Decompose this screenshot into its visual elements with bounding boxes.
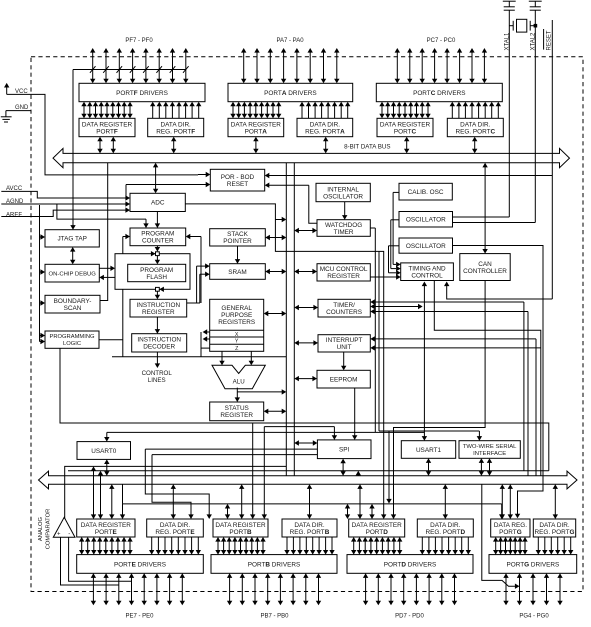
wire stack pointer to SRAM [235,246,240,264]
svg-text:REGISTER: REGISTER [220,412,253,419]
svg-text:AREF: AREF [6,212,22,218]
svg-text:REG. PORTA: REG. PORTA [305,128,345,135]
block DATA REGISTER PORTF [79,118,135,136]
block DATA DIR. REG. PORTE [147,519,204,537]
block PORTA DRIVERS [228,83,353,101]
wire vertical data bus (left rail) [285,163,287,476]
wires: lower bus to PORTG registers [500,484,558,519]
wire rail to two-wire interface [378,251,380,431]
svg-text:GND: GND [15,105,29,111]
wire instruction decoder to control lines [155,352,160,368]
wire POR-BOD to RESET line [265,173,553,178]
wires USART0/SPI pin routing [145,446,322,519]
svg-text:PORTB: PORTB [229,529,252,536]
wires to port B register [225,504,230,519]
wires: lower bus to PORTD registers [357,484,448,519]
wire RESET to timing and control [444,282,552,300]
wire timing control to USART0 clock [104,432,424,441]
wires: PORTD direction register to driver [420,537,471,555]
svg-text:OSCILLATOR: OSCILLATOR [406,243,446,250]
wires: PORTA driver to data direction register [299,102,350,119]
op-amp style ALU [212,365,265,388]
wire to port D register [345,431,392,519]
wires: PORTE register to driver [79,537,133,555]
wires: lower bus to PORTE registers [171,484,176,519]
svg-text:PORTA DRIVERS: PORTA DRIVERS [264,90,316,97]
pins PB7 - PB0 [227,573,321,619]
wire programming logic stub [99,339,123,341]
svg-text:COMPARATOR: COMPARATOR [46,509,52,550]
svg-text:INSTRUCTION: INSTRUCTION [137,337,181,344]
wires: PORTG direction register to driver [536,537,574,555]
block DATA DIR. REG. PORTG [533,519,575,537]
label ANALOG COMPARATOR [38,509,52,550]
svg-text:INSTRUCTION: INSTRUCTION [136,302,180,309]
wires: lower bus to PORTB registers [239,484,312,519]
wire TWI to port G clock out [482,484,520,589]
svg-text:PROGRAM: PROGRAM [141,231,174,238]
block DATA DIR. REG. PORTD [417,519,473,537]
svg-text:PORTC: PORTC [394,128,417,135]
wire program counter right rail [186,234,201,303]
block BOUNDARY-SCAN [45,295,100,313]
block DATA REGISTER PORTB [213,519,268,537]
svg-text:DATA REG.: DATA REG. [494,522,527,529]
block PORTG DRIVERS [489,555,577,574]
wire interrupt lines to right rail [370,336,541,476]
wires: PORTG register to driver [493,537,528,555]
svg-text:STATUS: STATUS [225,405,249,412]
wire oscillator output right rail [453,246,544,519]
wire AVCC branch to POR-BOD reset [126,182,210,198]
svg-text:PG4 - PG0: PG4 - PG0 [519,614,549,620]
pin AVCC [1,186,130,201]
8-bit data bus (lower) [39,471,578,489]
svg-text:USART1: USART1 [416,447,442,454]
svg-text:DATA DIR.: DATA DIR. [430,522,461,529]
block USART0 [77,442,131,460]
wire timing control down rail [434,281,541,476]
wire control bus horizontal [112,356,286,358]
svg-text:SPI: SPI [339,447,350,454]
svg-text:ADC: ADC [151,200,165,207]
svg-text:ANALOG: ANALOG [38,516,44,541]
block WATCHDOG TIMER [317,220,370,237]
wire debug rail with taps [40,205,46,344]
svg-text:CONTROL: CONTROL [142,370,173,377]
wire XTAL1 to oscillator [453,216,510,218]
wires SPI to port B [250,423,267,519]
wire POR-BOD to watchdog [265,183,317,224]
wires: PORTF driver to data direction register [150,102,201,119]
svg-text:CONTROLLER: CONTROLLER [463,268,507,275]
pins PG4 - PG0 [503,573,562,619]
wire X/Y register address out [201,329,210,357]
svg-text:PA7 - PA0: PA7 - PA0 [276,38,304,44]
wire ADC output rail [185,204,383,504]
wire timer clock rail [370,299,528,475]
block TIMER/COUNTERS [318,299,370,317]
wires analog comparator inputs [61,537,132,585]
block PROGRAM COUNTER [130,228,186,246]
block SPI [317,440,371,459]
svg-text:REGISTER: REGISTER [142,309,175,316]
wire lower distribution horizontal [123,484,505,519]
svg-text:PORTG: PORTG [499,529,522,536]
block INTERNAL OSCILLATOR [316,183,370,201]
pin AREF [1,207,130,218]
8-bit data bus (upper) [53,148,570,167]
svg-text:LINES: LINES [148,377,166,384]
wire interrupt unit to bus [294,340,318,345]
wires: PORTB register to driver [215,537,265,555]
wires: PORTF registers to data bus [97,137,176,154]
block STACK POINTER [210,229,266,246]
wires: PORTA driver to data register [230,102,281,119]
pins PD7 - PD0 [363,573,457,619]
svg-text:PORTG DRIVERS: PORTG DRIVERS [506,561,559,568]
wires: PORTF driver to data register [81,102,132,119]
svg-text:CALIB. OSC: CALIB. OSC [408,189,444,196]
block DATA DIR. REG. PORTC [447,118,503,136]
wire indirect addressing SRAM to registers [197,263,210,303]
svg-text:REG. PORTE: REG. PORTE [155,529,195,536]
block DATA REGISTER PORTA [228,118,284,136]
svg-text:DATA REGISTER: DATA REGISTER [81,522,132,529]
wire timer/counters to timing control [370,304,422,309]
svg-text:ALU: ALU [233,378,245,385]
block DATA REGISTER PORTC [377,118,433,136]
svg-text:INTERFACE: INTERFACE [473,451,506,457]
wire general purpose registers to bus [264,311,287,316]
svg-text:PORTE: PORTE [95,529,118,536]
wire instruction register to instruction decoder [155,317,160,334]
wire VCC rail to POR-BOD reset [7,94,211,177]
svg-text:DATA REGISTER: DATA REGISTER [215,522,266,529]
wire to two-wire serial interface [379,431,482,441]
svg-text:TWO-WIRE SERIAL: TWO-WIRE SERIAL [463,444,517,450]
svg-text:LOGIC: LOGIC [63,341,81,347]
op-amp analog comparator [53,517,75,537]
block PROGRAMMING LOGIC [45,331,99,348]
svg-text:DATA REGISTER: DATA REGISTER [82,121,133,128]
svg-text:ON-CHIP DEBUG: ON-CHIP DEBUG [49,271,97,277]
wire status register to bus [264,409,287,414]
svg-text:COUNTERS: COUNTERS [326,309,362,316]
svg-text:PF7 - PF0: PF7 - PF0 [125,38,153,44]
svg-text:PB7 - PB0: PB7 - PB0 [260,614,289,620]
svg-text:INTERNAL: INTERNAL [327,186,359,193]
svg-text:PORTC DRIVERS: PORTC DRIVERS [413,90,465,97]
svg-text:DATA REGISTER: DATA REGISTER [231,121,282,128]
wire instruction register to GPR [187,302,200,304]
svg-text:UNIT: UNIT [337,344,352,351]
wire ALU to status register [235,388,240,402]
wire registers to ALU (right) [249,351,254,365]
svg-text:PURPOSE: PURPOSE [221,312,252,319]
pin XTAL1 [504,10,510,217]
svg-text:REGISTERS: REGISTERS [218,319,255,326]
svg-text:POR - BOD: POR - BOD [221,174,255,181]
wire SPI to bus rail [294,440,317,445]
svg-text:EEPROM: EEPROM [330,377,358,384]
svg-text:GENERAL: GENERAL [221,305,252,312]
wire clock distribution horizontal [68,471,549,476]
svg-text:DATA DIR.: DATA DIR. [310,121,341,128]
wire AGND branch to program counter [57,204,149,228]
block EEPROM [317,370,370,388]
pin RESET (active low) [544,20,553,299]
block INSTRUCTION DECODER [132,334,187,352]
svg-text:DATA DIR.: DATA DIR. [160,522,191,529]
wire vertical data bus (right rail) [293,163,295,476]
wire program counter left rail [123,234,130,357]
block DATA DIR. REG. PORTB [282,519,337,537]
wire USART1 to lower bus [426,458,431,475]
block MCU CONTROL REGISTER [317,264,370,281]
block USART1 [401,441,455,459]
wires: PORTD register to driver [351,537,402,555]
capacitor at XTAL2 [529,1,542,10]
pins PF7 - PF0 [90,38,189,83]
wires on-chip debug to program flash [99,266,115,281]
wire internal oscillator to watchdog timer [342,202,347,220]
svg-text:USART0: USART0 [91,448,117,455]
wires to port E register [91,466,125,519]
wire registers to ALU (left) [219,351,224,365]
svg-text:PORTF: PORTF [96,128,118,135]
wire oscillator 2 to timing control [389,246,401,276]
svg-text:CAN: CAN [478,261,492,268]
block PORTF DRIVERS [79,83,205,101]
svg-text:PORTE DRIVERS: PORTE DRIVERS [114,561,166,568]
svg-text:MCU CONTROL: MCU CONTROL [320,266,368,273]
wire TWI to lower bus [479,458,493,475]
block INTERRUPT UNIT [318,335,370,352]
svg-text:CONTROL: CONTROL [411,273,443,280]
block DATA DIR. REG. PORTF [148,118,204,136]
wire program flash to instruction register [155,291,160,299]
wire ADC to bus [153,163,158,194]
junction flash output [156,287,164,292]
wire ALU to bus [237,389,286,394]
svg-text:DATA REGISTER: DATA REGISTER [380,121,431,128]
svg-text:PORTA: PORTA [245,128,268,135]
capacitor at XTAL1 [503,1,516,10]
block TIMING AND CONTROL [401,263,454,281]
wire timing control to USART1 clock [422,282,427,441]
svg-text:TIMING AND: TIMING AND [408,266,446,273]
wire JTAG pin tap along PORTF pins [70,66,188,230]
block ADC [130,193,185,211]
svg-text:REG. PORTC: REG. PORTC [455,128,495,135]
net label 8-BIT DATA BUS [344,144,390,151]
junction program counter to flash [151,246,160,265]
svg-text:REG. PORTB: REG. PORTB [290,529,330,536]
wire programming logic to serial programming [60,348,549,471]
wire MCU control register to bus [294,269,317,274]
pin VCC [4,83,28,95]
wire timer/counters to bus [294,305,318,310]
svg-text:REG. PORTD: REG. PORTD [425,529,465,536]
wire ADC to program counter [155,212,160,229]
wire JTAG to on-chip debug [70,247,75,264]
block POR - BOD RESET [210,169,264,191]
pins PA7 - PA0 [241,38,340,83]
wire EEPROM to bus [294,376,317,381]
wire watchdog rail down [370,228,375,432]
svg-text:PROGRAM: PROGRAM [140,267,173,274]
block OSCILLATOR U-OSC1 [399,212,453,228]
svg-text:PE7 - PE0: PE7 - PE0 [125,614,154,620]
svg-text:COUNTER: COUNTER [142,238,174,245]
wire CAN controller to port D [391,281,485,520]
block PORTC DRIVERS [376,83,502,101]
wire interrupt unit to EEPROM [341,352,346,370]
svg-text:PORTF DRIVERS: PORTF DRIVERS [116,90,168,97]
svg-text:REG. PORTG: REG. PORTG [534,529,574,536]
wire USART0 to bus [104,459,109,475]
wires: PORTC driver to data direction register [450,102,501,119]
net label CONTROL LINES [142,370,173,384]
block DATA DIR. REG. PORTA [297,118,353,136]
svg-text:PORTD DRIVERS: PORTD DRIVERS [384,561,436,568]
svg-text:STACK: STACK [227,231,249,238]
svg-text:PROGRAMMING: PROGRAMMING [49,334,95,340]
svg-text:TIMER/: TIMER/ [333,302,355,309]
block PORTE DRIVERS [77,555,204,574]
block OSCILLATOR U-OSC2 [399,238,453,253]
svg-text:DECODER: DECODER [143,344,175,351]
svg-text:BOUNDARY-: BOUNDARY- [54,298,92,305]
svg-text:RESET: RESET [227,181,248,188]
wire oscillator 1 to timing control [391,220,401,271]
wire SPI to lower bus [340,459,345,476]
block ON-CHIP DEBUG [45,264,99,282]
block GENERAL PURPOSE REGISTERS [210,299,264,352]
pins PE7 - PE0 [91,573,185,619]
crystal Y1 [509,19,537,32]
wire MCU control to timing and control [370,274,400,279]
svg-text:REGISTER: REGISTER [327,273,360,280]
svg-text:WATCHDOG: WATCHDOG [325,222,362,229]
svg-text:PORTD: PORTD [366,529,389,536]
svg-text:SRAM: SRAM [228,269,246,276]
block TWO-WIRE SERIAL INTERFACE [459,441,520,459]
svg-text:DATA REGISTER: DATA REGISTER [352,522,403,529]
block DATA REGISTER PORTD [349,519,405,537]
pins PC7 - PC0 [395,38,488,83]
pin AGND [1,199,130,207]
block SRAM [210,264,266,280]
block JTAG TAP [45,230,99,247]
svg-text:SCAN: SCAN [64,305,82,312]
wires: PORTC registers to data bus [404,137,477,154]
chip boundary (dashed) [31,57,583,592]
wire SRAM to bus [265,269,286,274]
svg-text:X: X [235,332,239,338]
wire boundary-scan to port pins [100,163,108,301]
block CAN CONTROLLER [460,254,510,281]
svg-text:POINTER: POINTER [223,238,252,245]
svg-text:Y: Y [235,339,239,345]
wire XTAL2 to oscillator [453,222,536,224]
svg-text:DATA DIR.: DATA DIR. [539,522,570,529]
block PORTB DRIVERS [211,555,337,574]
svg-text:JTAG TAP: JTAG TAP [57,236,86,243]
block INSTRUCTION REGISTER [130,299,187,317]
wires from bus to SPI [264,388,357,440]
svg-text:INTERRUPT: INTERRUPT [326,337,363,344]
pin GND [1,105,31,122]
svg-text:PC7 - PC0: PC7 - PC0 [427,38,456,44]
block PORTD DRIVERS [347,555,473,574]
wire CAN controller to bus [482,163,487,254]
wires: PORTC driver to data register [379,102,430,119]
svg-text:OSCILLATOR: OSCILLATOR [323,193,363,200]
block program flash outer [115,254,190,290]
svg-text:DATA DIR.: DATA DIR. [460,121,491,128]
block DATA REGISTER PORTE [77,519,135,537]
wire analog comparator output [65,466,287,518]
block STATUS REGISTER [210,402,264,421]
svg-text:PORTB DRIVERS: PORTB DRIVERS [248,561,300,568]
wires: PORTB direction register to driver [284,537,334,555]
svg-text:FLASH: FLASH [146,274,167,281]
svg-text:TIMER: TIMER [334,229,354,236]
wires: PORTE direction register to driver [149,537,201,555]
svg-text:DATA DIR.: DATA DIR. [161,121,192,128]
svg-text:DATA DIR.: DATA DIR. [294,522,325,529]
svg-text:REG. PORTF: REG. PORTF [156,128,195,135]
wire watchdog timer to bus [294,228,317,233]
block PROGRAM FLASH [128,264,186,281]
svg-text:OSCILLATOR: OSCILLATOR [406,217,446,224]
wires: PORTA registers to data bus [253,137,328,154]
svg-text:PD7 - PD0: PD7 - PD0 [395,614,424,620]
block DATA REGISTER PORTG [491,519,530,537]
block CALIB. OSC [399,183,452,200]
wire calibrated oscillator to timing control [393,192,401,267]
svg-text:RESET: RESET [546,30,552,50]
svg-text:+: + [57,532,61,538]
svg-text:8-BIT DATA BUS: 8-BIT DATA BUS [344,144,390,151]
wire stack pointer to bus [265,235,286,240]
pin XTAL2 [530,10,536,222]
svg-text:-: - [68,531,70,537]
